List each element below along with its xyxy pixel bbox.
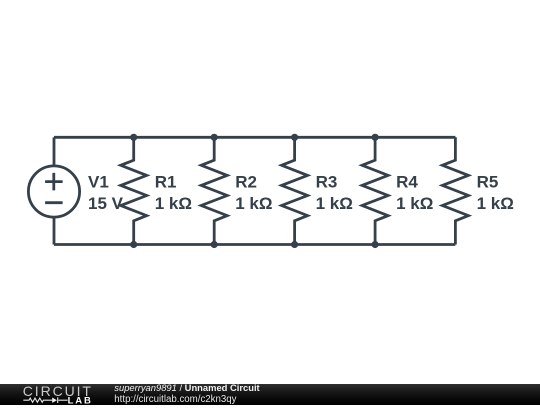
- svg-text:1 kΩ: 1 kΩ: [155, 194, 192, 213]
- node junction bottom R3: [291, 241, 298, 248]
- label R4 1 kOhm: [396, 173, 433, 213]
- label R5 1 kOhm: [477, 173, 514, 213]
- label R3 1 kOhm: [316, 173, 353, 213]
- svg-text:R5: R5: [477, 173, 499, 192]
- svg-text:1 kΩ: 1 kΩ: [235, 194, 272, 213]
- svg-text:1 kΩ: 1 kΩ: [316, 194, 353, 213]
- svg-text:1 kΩ: 1 kΩ: [477, 194, 514, 213]
- svg-text:LAB: LAB: [68, 396, 93, 405]
- node junction top R3: [291, 134, 298, 141]
- logo wordmark CIRCUIT: [23, 383, 93, 399]
- svg-text:R4: R4: [396, 173, 418, 192]
- svg-text:15 V: 15 V: [88, 194, 124, 213]
- node junction bottom R2: [211, 241, 218, 248]
- voltage source V1: [28, 166, 79, 217]
- wire V1 bottom lead: [53, 216, 56, 245]
- resistor R3: [282, 137, 308, 244]
- logo resistor-diode glyph: [23, 397, 67, 403]
- footer url line: [114, 394, 236, 405]
- logo wordmark LAB: [68, 396, 93, 407]
- svg-text:V1: V1: [88, 173, 109, 192]
- svg-text:R1: R1: [155, 173, 177, 192]
- resistor R4: [362, 137, 388, 244]
- wire V1 top lead: [53, 137, 56, 167]
- resistor R5: [442, 137, 468, 244]
- node junction top R2: [211, 134, 218, 141]
- label R2 1 kOhm: [235, 173, 272, 213]
- wire top bus: [54, 136, 455, 139]
- resistor R1: [121, 137, 147, 244]
- node junction bottom R1: [130, 241, 137, 248]
- label V1 15 V: [88, 173, 124, 213]
- svg-text:R2: R2: [235, 173, 257, 192]
- label R1 1 kOhm: [155, 173, 192, 213]
- svg-text:R3: R3: [316, 173, 338, 192]
- node junction bottom R4: [372, 241, 379, 248]
- wire bottom bus: [54, 243, 455, 246]
- svg-text:1 kΩ: 1 kΩ: [396, 194, 433, 213]
- svg-text:http://circuitlab.com/c2kn3qy: http://circuitlab.com/c2kn3qy: [114, 394, 236, 405]
- footer author / title line: [114, 382, 259, 393]
- node junction top R1: [130, 134, 137, 141]
- resistor R2: [201, 137, 227, 244]
- svg-text:superryan9891 / Unnamed Circui: superryan9891 / Unnamed Circuit: [114, 384, 259, 393]
- node junction top R4: [372, 134, 379, 141]
